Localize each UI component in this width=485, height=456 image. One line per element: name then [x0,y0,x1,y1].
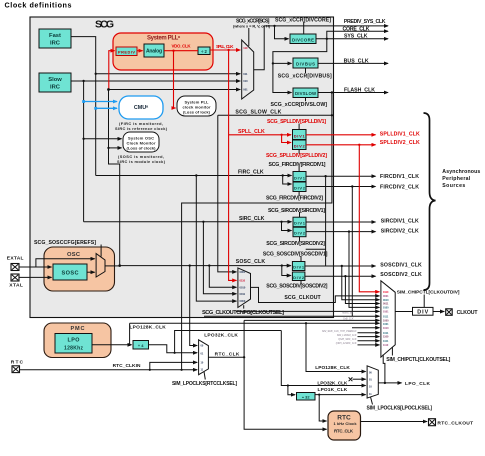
wire SCG_CLKOUT mux in3 riser [209,266,236,288]
wire SIRC div controls [299,212,301,241]
wire FIRC div controls [298,166,300,196]
wire SIRC DIV2 drop [282,222,292,231]
divider FIRC DIV1/DIV2 [293,172,306,192]
svg-text:0100: 0100 [383,307,389,310]
wire SOSCDIV1_CLK out [305,265,376,267]
wire LPO_CLK riser [383,355,385,383]
mux OSC bypass (EREFS) [96,254,105,278]
mux SCS (system clock select) [242,40,254,99]
svg-text:SOSC_CLK: SOSC_CLK [236,259,266,265]
wire RTC_CLKIN jog to mux in3 [150,362,197,369]
wire SOSCDIV2_CLK out [305,275,376,277]
wire CORE_CLK branch [327,31,388,39]
wire SIRC to OSC monitor [84,138,122,140]
svg-text:0010: 0010 [383,299,389,302]
svg-text:SCG_CLKOUTCNFG[CLKOUTSEL]: SCG_CLKOUTCNFG[CLKOUTSEL] [202,310,284,316]
wire SPLL DIV2 drop [282,135,291,143]
svg-text:SCG_xCCR[DIVSLOW]: SCG_xCCR[DIVSLOW] [271,102,328,108]
svg-text:SCG_SLOW_CLK: SCG_SLOW_CLK [235,110,281,116]
svg-text:SYS_CLK: SYS_CLK [344,34,368,40]
svg-text:LPO1K_CLK: LPO1K_CLK [318,387,348,393]
svg-text:SCG_SPLLDIV[SPLLDIV1]: SCG_SPLLDIV[SPLLDIV1] [267,119,326,125]
divider DIVSLOW [293,88,318,98]
svg-text:÷ 32: ÷ 32 [302,394,311,399]
wire XTAL into SOSC [20,276,52,278]
svg-text:CLKOUT: CLKOUT [457,310,479,316]
wire SOSCDIV1 label elbow [306,248,326,250]
wire RTC block output to pin [361,421,428,423]
wire LPO1K drop to RTC block [319,395,326,421]
wire RTC_CLK to big mux row8 [244,319,379,321]
svg-text:CORE_CLK: CORE_CLK [343,27,370,33]
svg-text:QSPI_SFIF_CLK: QSPI_SFIF_CLK [338,338,357,341]
wire FLASH_CLK out [318,92,388,94]
wire CLKOUTSEL control [391,348,393,356]
mux SCG_CLKOUT select [238,268,251,308]
mux SIM LPOCLKSEL [367,366,378,398]
wire SPLLDIV2_CLK out [306,144,376,146]
wire DIVCORE to DIVBUS/DIVSLOW chain [273,39,327,93]
wire big mux row6 [236,310,379,312]
wire SOSC to OSC monitor [109,147,122,149]
wire SIRCDIV1_CLK out [306,221,376,223]
wire SCG_CLKOUT mux in5 riser from FIRC [196,176,236,302]
mux select codes RTC mux [201,345,204,372]
svg-text:SPLL_CLK: SPLL_CLK [216,44,234,49]
svg-text:SCG: SCG [95,18,114,30]
wire SCG_CLKOUT mux control [243,305,245,308]
svg-text:SCG_FIRCDIV[FIRCDIV1]: SCG_FIRCDIV[FIRCDIV1] [269,162,326,168]
svg-text:QSPI_2xSFIF_CLK: QSPI_2xSFIF_CLK [336,342,357,345]
wire RTC_CLK trunk [244,320,326,429]
wire LPO 128k out to div4 [92,344,132,346]
svg-text:SCG_SIRCDIV[SIRCDIV2]: SCG_SIRCDIV[SIRCDIV2] [266,241,325,247]
wire SPLL red net [109,50,380,292]
wire SCG_CLKOUT mux in1 from SLOW [218,115,237,272]
svg-text:SIRCDIV1_CLK: SIRCDIV1_CLK [381,219,419,225]
wire LPO mux in2 stub [353,378,366,380]
mux select codes SCS [243,46,248,92]
wire DIVCORE control [303,22,305,34]
svg-text:LPO: LPO [68,338,80,344]
svg-text:SIRC is reference clock): SIRC is reference clock) [115,126,168,131]
svg-text:0101: 0101 [383,311,389,314]
svg-text:CMUa: CMUa [134,105,148,112]
svg-text:DIVSLOW: DIVSLOW [295,91,317,96]
wire FIRC_CLK to FIRC dividers [96,175,292,177]
svg-text:Slow: Slow [48,77,62,83]
wire SYS_CLK out [316,38,388,40]
wire LPO32K riser [175,331,282,353]
divider DIV (CLKOUT) [413,307,434,315]
svg-text:001: 001 [243,88,248,92]
wire DIVSLOW control [305,97,307,101]
wire SOSC_CLK to SCS mux [109,89,241,91]
wire OSC mux output [105,265,120,267]
wire SPLL trunk down [229,50,237,280]
svg-text:rtcosc_clk: rtcosc_clk [342,312,353,315]
svg-text:PREDIV_SYS_CLK: PREDIV_SYS_CLK [344,19,386,25]
svg-text:OSC: OSC [67,252,81,258]
pin RTC (RTC_CLKIN) [11,360,24,373]
svg-text:0011: 0011 [240,292,246,296]
wire Analog to div2 [164,50,198,52]
svg-text:SCG_xCCR[DIVCORE]: SCG_xCCR[DIVCORE] [275,17,331,23]
svg-text:SCG_CLKOUT: SCG_CLKOUT [284,295,321,301]
divider DIVCORE [290,34,316,44]
wire big mux stub row13 [358,340,380,342]
svg-text:RTC: RTC [11,360,24,366]
svg-text:SCG_SPLLDIV[SPLLDIV2]: SCG_SPLLDIV[SPLLDIV2] [266,153,327,159]
svg-text:SIM_CHIPCTL[CLKOUTDIV]: SIM_CHIPCTL[CLKOUTDIV] [397,289,460,295]
wire PLL input from SOSC junction [109,51,115,90]
svg-text:SIM_LPOCLKS[RTCCLKSEL]: SIM_LPOCLKS[RTCCLKSEL] [172,381,237,387]
wire big mux stub row11 [358,332,380,334]
wire SOSCDIV1 to big mux row3 [342,266,380,300]
svg-text:010: 010 [243,79,248,83]
svg-text:1011: 1011 [383,332,389,335]
svg-text:DIV2: DIV2 [294,186,306,191]
svg-text:DIV2: DIV2 [294,144,306,149]
wire SCG_SLOW_CLK label line [218,114,332,116]
svg-text:DIV1: DIV1 [294,133,306,138]
wire big mux row7 long [204,315,379,317]
wire FIRCDIV2_CLK out [306,186,376,188]
svg-text:DIV2: DIV2 [294,231,306,236]
wire FIRC output down [71,37,96,176]
svg-text:FIRCDIV2_CLK: FIRCDIV2_CLK [380,184,419,190]
wire DIVBUS feed [273,62,292,64]
svg-text:DIV1: DIV1 [293,265,305,270]
svg-text:System PLLa: System PLLa [147,35,181,42]
svg-text:(where x = R, V, or H): (where x = R, V, or H) [233,23,271,28]
svg-text:RTC_CLK: RTC_CLK [334,428,354,433]
wire LPO32K trunk down [281,331,365,386]
wire FIRCDIV1 stub down [325,176,327,265]
svg-text:BUS_CLK: BUS_CLK [344,58,369,64]
wire SPLL_CLK to SPLL dividers [229,134,291,136]
wire SIRCDIV2 to big mux row5 [349,232,379,308]
svg-text:1001: 1001 [383,323,389,326]
svg-text:SIRCDIV2_CLK: SIRCDIV2_CLK [381,228,419,234]
SCG block background [30,17,334,318]
svg-text:IRC: IRC [50,84,61,90]
divider div-by-32 [297,393,316,401]
wire SLOW_CLK down from FLASH [182,93,332,370]
wire EREFS control [100,245,102,257]
divider SIRC DIV1/DIV2 [293,217,306,237]
svg-text:LPO128K_CLK: LPO128K_CLK [315,365,350,371]
svg-text:(Loss of clock): (Loss of clock) [127,145,157,150]
svg-text:÷ 2: ÷ 2 [201,49,207,54]
block FIRC (Fast IRC) [39,29,71,48]
svg-text:SxB_CLK: SxB_CLK [343,318,354,321]
svg-text:RTC_CLK: RTC_CLK [215,351,240,357]
wire big mux output to DIV [395,311,412,313]
wire RTC_CLK output [208,356,244,358]
svg-text:DIV2: DIV2 [293,275,305,280]
svg-text:DIV1: DIV1 [294,175,306,180]
divider DIVBUS [293,58,318,68]
svg-text:SOSC: SOSC [62,271,79,277]
wire SOSC out to OSC mux [87,271,95,273]
svg-text:SIM_LPOCLKS[LPOCLKSEL]: SIM_LPOCLKS[LPOCLKSEL] [367,406,433,412]
svg-text:SCG_SOSCDIV[SOSCDIV1]: SCG_SOSCDIV[SOSCDIV1] [263,252,328,258]
wire LPO128K_CLK rail riser [129,323,131,345]
svg-text:0110: 0110 [383,291,389,294]
junction dots blue [82,100,97,110]
wire SOSC div controls [300,256,302,284]
mux SIM CLKOUT select (big) [381,281,395,357]
svg-text:LPO_CLK: LPO_CLK [405,381,431,387]
svg-text:SCG_xCCR[DIVBUS]: SCG_xCCR[DIVBUS] [278,74,332,80]
wire CLKOUTDIV control [423,295,425,308]
svg-text:SIRC_CLK: SIRC_CLK [239,216,265,222]
block System PLL [113,33,213,70]
svg-text:DIV1: DIV1 [294,221,306,226]
wire RTCCLKSEL control [204,372,205,380]
svg-text:(Loss of lock): (Loss of lock) [183,110,211,115]
wire SIRC down trunk [83,81,85,222]
divider SPLL DIV1/DIV2 [293,130,307,150]
svg-text:VDO_CLK: VDO_CLK [172,44,192,49]
svg-text:0000: 0000 [240,299,246,303]
svg-text:SCG_SIRCDIV[SIRCDIV1]: SCG_SIRCDIV[SIRCDIV1] [268,208,325,214]
junction dots red [172,49,360,146]
wire SPLL_CLK to SCS mux [210,49,240,51]
svg-text:DIVCORE: DIVCORE [292,37,314,42]
svg-text:SPLLDIV1_CLK: SPLLDIV1_CLK [380,132,420,138]
wire EXTAL into SOSC [20,266,52,268]
svg-text:RTC_CLKIN: RTC_CLKIN [113,363,141,369]
svg-text:128Khz: 128Khz [64,346,84,352]
mux select codes LPO mux [369,372,372,397]
wire FIRCDIV2 to big mux row7 [351,187,353,317]
svg-text:110: 110 [243,46,248,50]
svg-text:1101: 1101 [383,340,389,343]
wire SCG_CLKOUT output to big mux [251,287,380,302]
wire LPO128K to big mux row9 [130,322,380,324]
svg-text:1110: 1110 [383,344,389,347]
wire SOSC to RTC mux in1 [190,266,197,346]
wire LPO mux output LPO_CLK [378,382,401,384]
wire SOSC riser with jog [109,90,120,266]
block System OSC Clock Monitor [117,132,166,164]
svg-text:÷ 4: ÷ 4 [138,343,144,348]
block CMU [115,96,168,131]
block SIRC (Slow IRC) [39,73,71,92]
wire LPOCLKSEL control [371,397,373,405]
svg-text:FIRCDIV1_CLK: FIRCDIV1_CLK [380,174,419,180]
svg-text:XTAL: XTAL [9,283,23,289]
wire big mux row10 stub [352,327,379,329]
wire SOSC_CLK to SOSC dividers [120,265,291,267]
wire SIRC_CLK to SCS mux [71,80,240,82]
wire SPLL div controls [298,124,300,154]
block PMC [44,323,111,358]
svg-text:SPLL_CLK: SPLL_CLK [238,129,265,135]
pin RTC_CLKOUT [429,419,474,427]
wire SOSCDIV2 to big mux row4 [345,276,379,303]
brace Asynchronous Peripheral Sources [424,113,436,290]
wire PREDIV to Analog [137,50,143,52]
svg-text:SIM_SFIF_CLK_HYP_PREMUX: SIM_SFIF_CLK_HYP_PREMUX [322,330,357,333]
wire SIRC_CLK to SIRC dividers [84,221,292,223]
divider SOSC DIV1/DIV2 [292,262,305,281]
svg-text:0001: 0001 [383,295,389,298]
svg-text:SIM_CHIPCTL[CLKOUTSEL]: SIM_CHIPCTL[CLKOUTSEL] [386,357,450,363]
svg-text:Sources: Sources [442,183,465,189]
svg-text:SIM_LVDSM_CLK: SIM_LVDSM_CLK [337,334,357,337]
pin EXTAL [7,256,24,271]
svg-text:Peripheral: Peripheral [442,176,471,182]
pin XTAL [9,274,23,289]
svg-text:LPO128K_CLK: LPO128K_CLK [130,324,167,330]
wire RTC_CLKIN from pin [20,369,198,371]
wire SCS control [248,28,250,46]
labels: control registers and clock names [34,17,422,315]
wire LPO1K div32 out to LPO mux in4 [315,394,366,396]
svg-text:DIV: DIV [417,309,428,315]
svg-text:FLASH_CLK: FLASH_CLK [344,87,375,93]
svg-text:1010: 1010 [383,327,389,330]
svg-text:011: 011 [243,72,248,76]
svg-text:PMC: PMC [71,326,85,332]
wire SCG_CLKOUT mux in4 riser from SIRC [203,222,236,294]
svg-text:FIRC_CLK: FIRC_CLK [238,170,264,176]
wire SIRCDIV2_CLK out [306,231,376,233]
svg-text:0111: 0111 [383,315,389,318]
svg-text:PREDIV: PREDIV [118,50,135,55]
wire DIVCORE feed [275,26,289,39]
wire EXTAL bypass to OSC mux [36,259,95,267]
svg-text:SCG_SOSCDIV[SOSCDIV2]: SCG_SOSCDIV[SOSCDIV2] [266,283,327,289]
wire FIRC_CLK to SCS mux [96,73,241,75]
svg-text:LPO32K_CLK: LPO32K_CLK [204,333,238,339]
svg-text:Analog: Analog [146,49,162,55]
svg-text:SCG_FIRCDIV[FIRCDIV2]: SCG_FIRCDIV[FIRCDIV2] [266,195,323,201]
svg-text:0001: 0001 [240,270,246,274]
svg-text:EXTAL: EXTAL [7,256,24,262]
svg-text:IRC: IRC [50,40,61,46]
mux select codes SCG_CLKOUT [240,270,246,303]
svg-text:RTC_CLKOUT: RTC_CLKOUT [437,421,473,427]
pin CLKOUT [446,309,479,316]
mux select codes big CLKOUT mux [383,291,389,347]
wire DIVBUS control [305,68,307,73]
svg-text:SCG_SOSCCFG[EREFS]: SCG_SOSCCFG[EREFS] [34,240,96,246]
wire FIRCDIV1_CLK out [306,175,376,177]
svg-text:1 kHz Clock: 1 kHz Clock [334,421,358,426]
wire big mux stub row12 [358,336,380,338]
svg-text:SOSCDIV2_CLK: SOSCDIV2_CLK [380,272,422,278]
wire SPLLDIV2 to big mux row1 [359,145,379,292]
wire SCS mux output to top rail [254,26,388,70]
svg-text:SIRC is module clock): SIRC is module clock) [117,159,166,164]
svg-text:SPLLDIV2_CLK: SPLLDIV2_CLK [380,140,420,146]
tiny source labels at big mux [322,312,357,346]
svg-text:0011: 0011 [383,303,389,306]
marker X on LPO32K input [349,377,353,381]
wire LPO128K drop to LPO mux [306,323,366,371]
labels bottom section [113,289,460,411]
wire BUS_CLK out [318,62,388,64]
svg-text:Fast: Fast [49,33,61,39]
divider div-by-4 [133,341,149,350]
wire div4 out jog to RTC mux in2 [149,345,198,353]
wire big mux stub row14 [358,344,380,346]
svg-text:SOSCDIV1_CLK: SOSCDIV1_CLK [380,263,422,269]
svg-text:Asynchronous: Asynchronous [442,169,480,175]
wire div32 feed [288,386,295,395]
svg-text:0010: 0010 [240,285,246,289]
wire VDO to PLL monitor [174,51,176,108]
svg-text:Clock definitions: Clock definitions [5,1,72,10]
block RTC [328,411,361,440]
wire SPLLDIV1_CLK out [306,134,376,136]
wire SOSC DIV2 drop [282,266,291,276]
svg-text:0110: 0110 [240,279,246,283]
block System PLL clock monitor [177,96,216,116]
labels red SPLL group [238,119,420,159]
svg-text:LPO32K_CLK: LPO32K_CLK [317,381,348,387]
block OSC [44,247,115,291]
wire FIRC DIV2 drop [283,176,292,185]
mux SIM RTCCLKSEL [199,340,209,375]
svg-text:DIVBUS: DIVBUS [296,62,315,67]
wire CMU blue inputs [84,102,117,109]
svg-text:1100: 1100 [383,336,389,339]
wire DIV to CLKOUT pin [433,311,444,313]
